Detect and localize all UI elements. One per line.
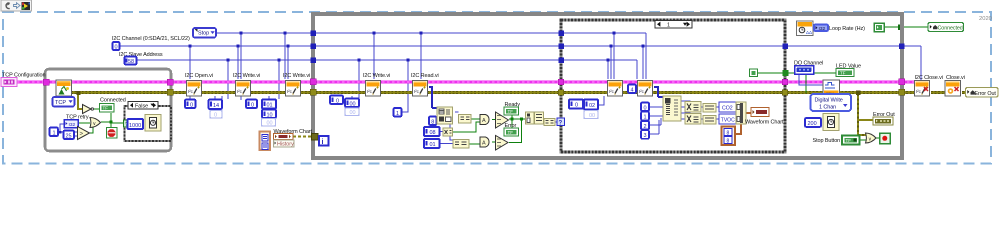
cluster constant 8 8 xyxy=(722,127,736,146)
vi I2C Read 1 xyxy=(413,81,428,97)
wire blue join to conv to CO2/TVOC xyxy=(701,107,719,119)
constant x08 xyxy=(424,127,440,136)
svg-text:Stop: Stop xyxy=(198,31,209,37)
svg-text:TCP: TCP xyxy=(55,100,66,106)
ring Digital Write 1 Chan xyxy=(811,94,852,111)
wire blue B drop x238 xyxy=(237,46,239,79)
vi I2C Write 4 xyxy=(608,81,623,97)
wire blue write4 const feed xyxy=(598,96,604,105)
vi I2C Read 2 xyxy=(638,81,653,97)
wire blue index2 outputs xyxy=(681,101,690,119)
case selector terminal xyxy=(557,118,565,126)
svg-text:1 Chan: 1 Chan xyxy=(819,105,836,111)
terminal TCP retry I32 xyxy=(64,120,78,128)
TCP Configuration control xyxy=(1,73,45,87)
svg-text:I2C Channel (0:SDA/21, SCL/22): I2C Channel (0:SDA/21, SCL/22) xyxy=(112,36,190,42)
constant 200 xyxy=(805,118,821,127)
indicator TVOC xyxy=(719,114,736,124)
indicator Waveform Chart case xyxy=(751,108,769,117)
wire blue B: I2C channel, y=46 xyxy=(119,46,921,80)
junction dots wire A xyxy=(240,32,616,35)
wire olive error-out branch x858 xyxy=(858,94,866,135)
svg-text:False: False xyxy=(135,104,148,110)
wire olive branch to Not gate in TCP frame xyxy=(78,94,82,109)
ring I2C mode Stop xyxy=(193,28,216,38)
svg-text:CO2: CO2 xyxy=(722,105,733,111)
svg-text:ΔΔ: ΔΔ xyxy=(806,30,812,35)
svg-text:∨: ∨ xyxy=(93,121,97,127)
svg-text:I32: I32 xyxy=(819,26,826,32)
svg-text:0: 0 xyxy=(336,98,339,104)
wire blue C drop x408 xyxy=(407,60,409,108)
conversion I32 node 1 xyxy=(703,104,716,113)
svg-text:1: 1 xyxy=(644,115,647,121)
wire blue x08 x01 feeds xyxy=(440,112,459,144)
svg-text:01: 01 xyxy=(430,142,436,148)
equal node top row xyxy=(459,115,472,124)
svg-text:8: 8 xyxy=(727,130,730,136)
wire green TCP status net xyxy=(78,109,124,133)
svg-text:TF: TF xyxy=(103,106,109,111)
unbundle pair before selector xyxy=(526,112,556,126)
constant column 0 xyxy=(641,103,649,112)
green junction dot TCP xyxy=(110,121,113,124)
block diagram background xyxy=(0,0,999,166)
vi Digital Write xyxy=(823,80,840,96)
chart terminal node xyxy=(274,134,294,140)
wire olive junction dot x858 xyxy=(856,91,861,96)
join numbers node 1 xyxy=(685,102,701,113)
vi Wait loop rate xyxy=(797,21,814,36)
vi I2C Close xyxy=(915,81,930,97)
svg-text:A: A xyxy=(482,118,486,124)
case structure main xyxy=(561,20,785,152)
constant column 1 xyxy=(641,112,649,121)
comparator greater xyxy=(78,127,90,140)
svg-text:0: 0 xyxy=(575,103,578,109)
svg-text:TF: TF xyxy=(840,70,846,75)
wire blue B drop x643 xyxy=(642,46,644,79)
svg-text:History: History xyxy=(277,142,294,148)
constant column 2 xyxy=(641,121,649,130)
svg-text:Connected: Connected xyxy=(100,98,126,104)
compound or node top xyxy=(496,112,509,128)
indicator Error Out small xyxy=(873,117,893,125)
constant x14 under open xyxy=(209,100,223,110)
constant x00 faded under write1 xyxy=(262,119,276,127)
svg-text:Stop Button: Stop Button xyxy=(813,138,841,144)
tunnels magenta xyxy=(43,79,905,85)
indicator Error Out global xyxy=(966,88,999,98)
svg-text:>: > xyxy=(80,132,84,138)
svg-text:∨: ∨ xyxy=(868,137,872,143)
svg-text:1: 1 xyxy=(53,131,56,137)
bundle node xyxy=(736,102,746,124)
constant 0 under write3 xyxy=(330,96,343,105)
tunnels olive xyxy=(167,89,905,140)
constant 1000 xyxy=(128,119,144,129)
constant bordered 0 write4 xyxy=(569,100,583,109)
indicator CO2 xyxy=(719,102,736,112)
wait ms icon right xyxy=(823,114,839,131)
wire olive dashed history feed, y=136.5 xyxy=(293,136,312,138)
wire blue C drop x228 xyxy=(227,60,229,99)
index array node xyxy=(437,107,453,124)
while loop xyxy=(313,14,902,158)
wire blue array out of I2C Read1 xyxy=(429,87,437,108)
svg-text:2020: 2020 xyxy=(979,16,992,22)
case selector inner xyxy=(128,102,158,110)
case selector main xyxy=(655,21,692,29)
junction dots wire B xyxy=(189,45,645,48)
vi I2C Write 1 xyxy=(236,81,251,97)
wire blue A drop x285 xyxy=(284,33,286,79)
join node x08 xyxy=(443,128,453,136)
green junction square on loop border xyxy=(898,24,904,30)
constant 0 under open xyxy=(185,100,196,109)
svg-text:i: i xyxy=(322,139,324,146)
and gate top xyxy=(480,115,489,125)
svg-text:TF: TF xyxy=(508,109,514,114)
terminal Loop Rate I32 selected xyxy=(814,25,828,33)
svg-text:A: A xyxy=(482,141,486,147)
svg-text:58: 58 xyxy=(128,59,134,65)
svg-text:00: 00 xyxy=(350,110,356,116)
indicator LED Value xyxy=(836,69,854,77)
constant x01 xyxy=(424,139,440,148)
svg-text:25: 25 xyxy=(66,134,72,140)
svg-text:0: 0 xyxy=(644,105,647,111)
wire blue read2 to index array xyxy=(654,87,663,97)
svg-text:0: 0 xyxy=(214,113,217,119)
vi Close xyxy=(945,81,961,97)
indicator Ready xyxy=(504,107,519,115)
wire blue C drop x279 xyxy=(278,60,280,99)
tunnel green case right xyxy=(783,70,789,76)
property label History xyxy=(274,140,295,148)
indicator Error xyxy=(504,128,519,136)
ring TCP xyxy=(53,97,75,107)
svg-text:TF: TF xyxy=(508,130,514,135)
wire blue B drop x288 xyxy=(287,46,289,79)
svg-text:TVOC: TVOC xyxy=(721,117,735,123)
svg-text:0: 0 xyxy=(115,45,118,51)
wire blue to case selector xyxy=(555,121,559,123)
index array node 2 xyxy=(663,96,681,121)
or gate TCP xyxy=(90,118,101,128)
svg-text:I2C Open.vi: I2C Open.vi xyxy=(185,73,213,79)
constant x02 write4 xyxy=(584,100,598,110)
wire olive error cluster, y=92.5 xyxy=(71,91,966,94)
svg-text:8: 8 xyxy=(727,138,730,144)
svg-text:I2C Write.vi: I2C Write.vi xyxy=(283,73,310,79)
wire blue C drop x359 xyxy=(358,60,360,98)
selection marquee dashed border xyxy=(3,12,991,164)
constant true top right xyxy=(874,23,884,32)
join numbers node 2 xyxy=(685,114,701,125)
svg-text:4: 4 xyxy=(631,87,634,93)
control Stop Button xyxy=(842,136,860,145)
wire blue B drop x190 xyxy=(189,46,191,79)
wire olive branch to Error Out indicator xyxy=(858,119,873,121)
svg-text:200: 200 xyxy=(808,121,817,127)
wire blue open/write constant stubs xyxy=(190,96,408,112)
vi I2C Open xyxy=(187,81,202,97)
wire green ready/error compare net xyxy=(453,115,545,144)
svg-text:Loop Rate (Hz): Loop Rate (Hz) xyxy=(829,26,865,32)
constant 25 xyxy=(64,131,75,140)
wire brown chart bundle out xyxy=(735,113,751,134)
vi TCP Open xyxy=(56,80,72,96)
TCP section frame xyxy=(45,69,171,151)
terminal DO Channel xyxy=(795,66,814,75)
constant 8 read count xyxy=(429,117,437,126)
svg-text:Digital Write: Digital Write xyxy=(815,98,843,104)
svg-text:I32: I32 xyxy=(69,122,76,128)
svg-text:00: 00 xyxy=(350,101,356,107)
wire blue B drop x611 xyxy=(610,46,612,79)
wait ms icon inner case xyxy=(145,115,161,132)
tunnels blue on while loop and case borders xyxy=(311,30,905,63)
svg-text:1: 1 xyxy=(396,111,399,117)
toolbar xyxy=(1,0,32,11)
svg-text:01: 01 xyxy=(267,103,273,109)
svg-text:2: 2 xyxy=(644,124,647,130)
svg-text:1000: 1000 xyxy=(129,123,141,129)
svg-text:00: 00 xyxy=(589,113,595,119)
svg-text:Waveform Chart: Waveform Chart xyxy=(745,120,784,126)
svg-text:02: 02 xyxy=(589,103,595,109)
svg-text:TF: TF xyxy=(846,138,852,143)
svg-text:1: 1 xyxy=(667,22,670,28)
svg-text:10: 10 xyxy=(267,112,273,118)
constant 0 faded under open xyxy=(210,111,222,119)
wire blue TCP retry net xyxy=(57,124,77,136)
wire blue A drop x421 xyxy=(420,33,422,79)
wire green stop button net xyxy=(859,138,880,140)
wire blue C drop x608 xyxy=(607,60,609,79)
not gate TCP status xyxy=(83,105,92,114)
constant 1 xyxy=(50,128,59,137)
indicator Connected xyxy=(100,104,115,113)
compound or node bottom xyxy=(496,136,509,151)
vi I2C Write 3 xyxy=(366,81,381,97)
constant column 3 xyxy=(641,130,649,139)
conversion I32 node 2 xyxy=(703,116,716,125)
svg-text:8: 8 xyxy=(431,119,434,125)
equal node bottom row xyxy=(453,140,469,149)
svg-text:I2C Write.vi: I2C Write.vi xyxy=(233,73,260,79)
constant x10 under write1 xyxy=(262,110,276,119)
svg-text:0: 0 xyxy=(251,102,254,108)
loop condition terminal xyxy=(880,133,891,144)
constant x00 under write3 xyxy=(345,99,359,108)
svg-text:14: 14 xyxy=(213,103,219,109)
wire blue A drop x241 xyxy=(240,33,242,79)
wire blue C: I2C slave address, y=60 xyxy=(136,60,637,79)
wire green LED net xyxy=(757,27,928,93)
svg-text:Connected: Connected xyxy=(938,25,963,31)
stop function icon xyxy=(107,128,118,139)
svg-text:Error Out: Error Out xyxy=(975,91,997,97)
constant 1 under read1 xyxy=(394,108,402,117)
svg-text:I2C Write.vi: I2C Write.vi xyxy=(363,73,390,79)
wire blue A end corner to I2C Read2 xyxy=(645,33,647,79)
property node History xyxy=(260,132,271,151)
wire blue index array aux xyxy=(436,119,438,121)
constant 4 between xyxy=(628,85,636,94)
wire blue A drop x374 xyxy=(373,33,375,79)
or gate loop stop xyxy=(866,133,877,143)
junction dots wire C xyxy=(227,59,610,62)
constant 0 under write1 xyxy=(246,100,257,109)
constant 0 channel xyxy=(113,42,120,51)
constant x58 xyxy=(125,57,137,66)
wire blue read2 const column feeds xyxy=(649,107,663,134)
wire blue A: I2C mode ring to case, y=33 xyxy=(215,32,646,34)
wire blue A drop x614 xyxy=(613,33,615,79)
inner case selector terminal green xyxy=(124,120,131,127)
constant x00 faded under write3 xyxy=(345,108,359,116)
wire olive junction dot x78 xyxy=(77,91,81,95)
wire magenta TCP configuration cluster, y=82 xyxy=(17,81,915,84)
constant x00 faded write4 xyxy=(584,111,598,119)
svg-text:0: 0 xyxy=(190,102,193,108)
wire blue DO channel feed xyxy=(799,73,823,85)
svg-text:08: 08 xyxy=(430,130,436,136)
vi I2C Write 2 xyxy=(286,81,301,97)
constant x01 under write1 xyxy=(262,100,276,109)
while loop iteration terminal xyxy=(319,136,329,146)
svg-text:00: 00 xyxy=(267,121,273,127)
svg-text:3: 3 xyxy=(644,133,647,139)
case structure inner false xyxy=(125,106,172,141)
svg-text:I2C Read.vi: I2C Read.vi xyxy=(411,73,439,79)
svg-text:?: ? xyxy=(559,120,563,126)
indicator Connected global xyxy=(928,23,964,32)
and gate bottom xyxy=(480,137,489,147)
constant true green xyxy=(750,69,758,77)
